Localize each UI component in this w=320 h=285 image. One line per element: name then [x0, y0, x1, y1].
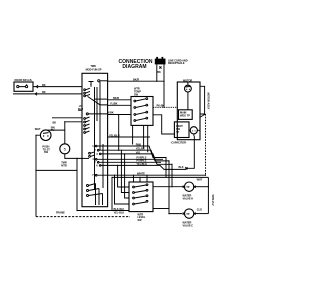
- svg-text:YEL/BLK: YEL/BLK: [136, 162, 147, 166]
- svg-text:WTR-VLV: WTR-VLV: [211, 194, 215, 205]
- svg-text:WHT: WHT: [35, 127, 41, 131]
- svg-text:DIAGRAM: DIAGRAM: [122, 64, 146, 70]
- svg-text:RECEPTACLE: RECEPTACLE: [168, 61, 185, 65]
- svg-text:DOOR SW A.B.: DOOR SW A.B.: [15, 78, 33, 82]
- svg-text:YL/BK: YL/BK: [110, 102, 118, 106]
- svg-text:YEL/BLU: YEL/BLU: [109, 133, 120, 137]
- svg-text:TP: TP: [186, 185, 190, 189]
- svg-text:PK-BK: PK-BK: [157, 103, 165, 107]
- svg-text:VIO: VIO: [136, 150, 140, 154]
- svg-text:BK: BK: [53, 120, 57, 124]
- svg-text:BK/R: BK/R: [133, 77, 139, 81]
- svg-text:TMR: TMR: [90, 64, 96, 68]
- svg-text:Y/BK: Y/BK: [108, 111, 114, 115]
- svg-text:YEL-BLK: YEL-BLK: [114, 210, 125, 214]
- svg-text:MOD-FUN-SP: MOD-FUN-SP: [86, 68, 102, 72]
- svg-text:WDG TP: WDG TP: [180, 113, 190, 117]
- svg-text:PU: PU: [51, 128, 55, 132]
- svg-text:SW: SW: [138, 218, 143, 222]
- svg-text:WHITE: WHITE: [137, 172, 145, 176]
- svg-text:YEL/BK: YEL/BK: [136, 147, 145, 151]
- svg-text:TP: TP: [176, 130, 180, 134]
- svg-text:WHT: WHT: [197, 177, 203, 181]
- svg-text:BK/R: BK/R: [113, 96, 119, 100]
- svg-text:BK: BK: [42, 83, 46, 87]
- svg-text:-CAPACITOR-: -CAPACITOR-: [171, 140, 187, 144]
- svg-text:VALVE-C: VALVE-C: [183, 223, 194, 227]
- svg-text:CLD: CLD: [197, 208, 202, 212]
- svg-text:BLK-WH: BLK-WH: [114, 207, 124, 211]
- svg-text:PNK: PNK: [136, 142, 141, 146]
- svg-text:MOTOR-ASSY: MOTOR-ASSY: [207, 93, 211, 110]
- svg-text:BLU: BLU: [78, 107, 83, 111]
- svg-text:BK: BK: [157, 70, 161, 74]
- svg-text:SW: SW: [44, 150, 49, 154]
- svg-text:MTR: MTR: [61, 163, 67, 167]
- svg-text:BK: BK: [42, 90, 46, 94]
- svg-text:SW: SW: [134, 93, 139, 97]
- svg-text:FRAME: FRAME: [56, 211, 65, 215]
- svg-text:VALVE-H: VALVE-H: [183, 196, 194, 200]
- svg-text:BLK: BLK: [179, 165, 184, 169]
- svg-text:TP: TP: [186, 212, 190, 216]
